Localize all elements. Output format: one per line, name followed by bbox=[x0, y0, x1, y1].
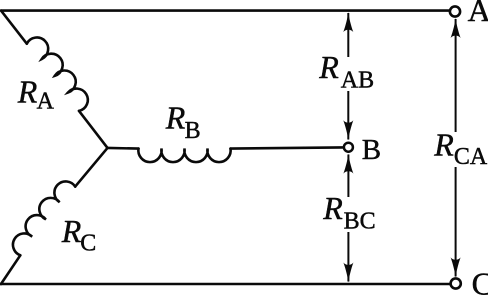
svg-text:A: A bbox=[37, 89, 55, 115]
resistor RA (coil) bbox=[27, 38, 88, 111]
svg-text:R: R bbox=[61, 213, 82, 249]
label RB bbox=[165, 100, 201, 144]
svg-text:R: R bbox=[17, 74, 38, 110]
svg-text:R: R bbox=[318, 49, 339, 85]
svg-text:B: B bbox=[362, 134, 381, 166]
wire coil RB to node B bbox=[231, 147, 343, 148]
svg-text:BC: BC bbox=[344, 209, 376, 235]
node A (terminal circle) bbox=[450, 6, 460, 16]
wire diagonal from top-left corner to coil RA bbox=[1, 11, 27, 44]
resistor RC (coil) bbox=[13, 181, 75, 255]
label RBC bbox=[319, 190, 376, 234]
arrowhead RCA down (at node C) bbox=[451, 257, 461, 277]
wire bottom horizontal (corner to node C) bbox=[1, 283, 451, 286]
label RC bbox=[61, 213, 96, 257]
svg-text:A: A bbox=[468, 0, 488, 28]
wire coil RC to center junction bbox=[75, 148, 107, 187]
svg-text:AB: AB bbox=[341, 68, 374, 94]
svg-text:C: C bbox=[472, 266, 488, 296]
label RCA bbox=[430, 127, 488, 170]
svg-text:R: R bbox=[433, 127, 454, 163]
resistor RB (coil) bbox=[138, 149, 230, 163]
svg-text:R: R bbox=[165, 100, 186, 136]
wire top horizontal (corner to node A) bbox=[1, 9, 450, 12]
svg-text:CA: CA bbox=[454, 144, 488, 170]
svg-text:B: B bbox=[185, 118, 201, 144]
label RAB bbox=[315, 49, 378, 94]
wire center junction to coil RB bbox=[108, 147, 139, 150]
arrowhead RCA up (at node A) bbox=[451, 18, 461, 38]
arrowhead RBC down (at bottom wire) bbox=[343, 263, 353, 283]
arrow line RCA (A to C) bbox=[455, 19, 457, 277]
node C (terminal circle) bbox=[451, 278, 461, 288]
svg-text:R: R bbox=[322, 190, 343, 226]
arrow line RBC (B to C) bbox=[347, 155, 349, 282]
wire coil RA to center junction bbox=[79, 111, 108, 148]
arrowhead RBC up (at node B) bbox=[343, 154, 353, 174]
svg-text:C: C bbox=[80, 231, 96, 257]
arrowhead RAB up (at top wire) bbox=[343, 12, 353, 32]
node B (terminal circle) bbox=[344, 143, 353, 152]
label RA bbox=[17, 74, 55, 115]
arrowhead RAB down (at node B) bbox=[343, 120, 353, 140]
arrow line RAB (A to B) bbox=[347, 13, 349, 140]
wire diagonal from bottom-left corner to coil RC bbox=[1, 255, 20, 284]
